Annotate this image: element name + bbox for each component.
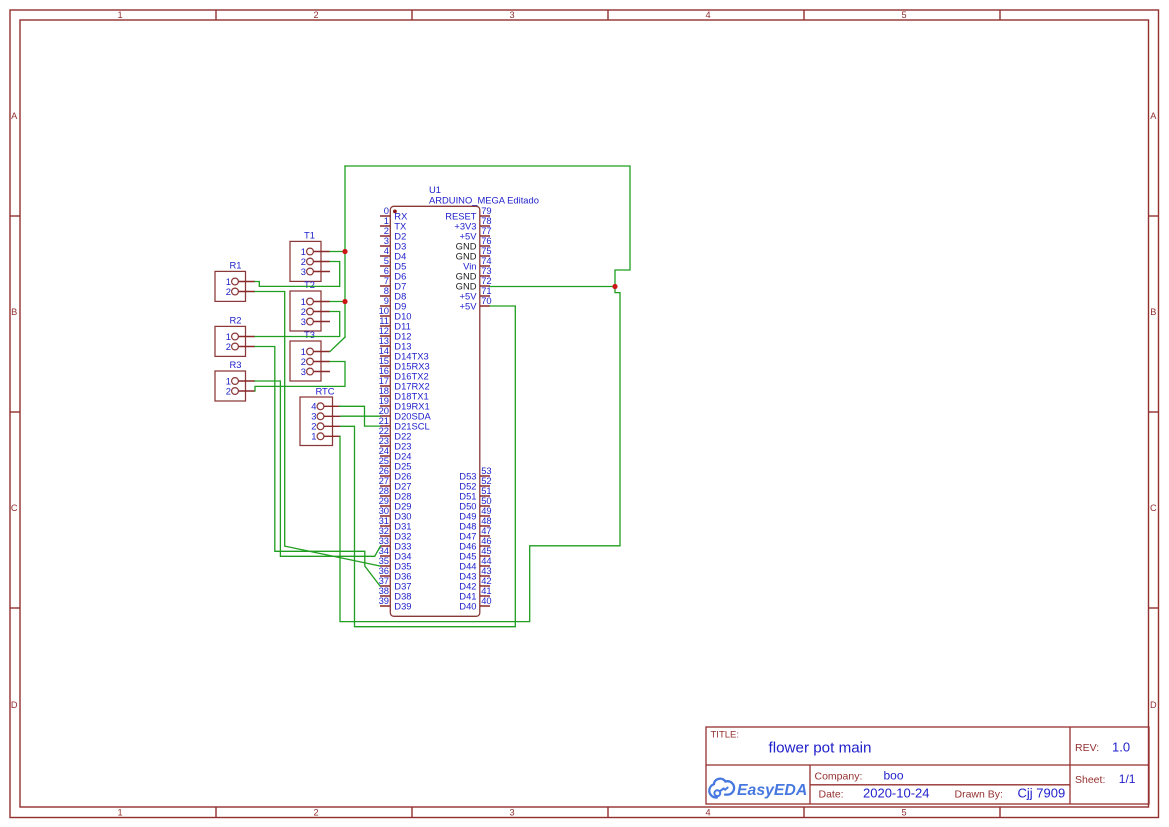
svg-text:R3: R3 — [230, 359, 242, 370]
R2 pin 1 — [226, 331, 255, 342]
Drawn By value Cjj 7909 — [1018, 786, 1066, 801]
title block TITLE label — [711, 730, 740, 741]
U1 pin 18 (D18TX1) — [379, 385, 429, 401]
U1 pin 73 (GND) — [456, 265, 492, 281]
U1 pin 23 (D23) — [379, 435, 412, 451]
svg-text:70: 70 — [481, 295, 491, 306]
U1 pin 75 (GND) — [456, 245, 492, 261]
T3 pin 3 — [301, 366, 330, 377]
RTC pin 1 — [311, 431, 340, 442]
U1 pin 34 (D34) — [379, 545, 412, 561]
svg-text:5: 5 — [901, 10, 906, 20]
U1 pin 74 (Vin) — [463, 255, 492, 271]
U1 pin 17 (D17RX2) — [379, 375, 430, 391]
T3 pin 1 — [301, 346, 330, 357]
connector T3 reference label — [304, 329, 315, 340]
wire R1 pin2 down to U1 pin D35 (diagonal) — [255, 292, 380, 567]
U1 pin-one marker dot — [393, 210, 397, 214]
T1 pin 1 — [301, 246, 330, 257]
U1 pin 79 (RESET) — [445, 205, 491, 221]
U1 pin 78 (+3V3) — [454, 215, 491, 231]
wire R3 pin1 down to U1 pin D33 (diagonal) — [255, 381, 381, 556]
U1 pin 28 (D28) — [379, 485, 412, 501]
wire RTC pin3 to U1 pin20 D20SDA — [341, 415, 381, 417]
U1 pin 51 (D51) — [459, 485, 491, 501]
T3 pin 2 — [301, 356, 330, 367]
connector T1 body — [290, 241, 321, 281]
svg-text:B: B — [11, 307, 17, 317]
svg-text:Date:: Date: — [819, 788, 844, 800]
svg-text:1: 1 — [117, 807, 122, 817]
RTC pin 4 — [311, 401, 340, 412]
U1 pin 47 (D47) — [459, 525, 491, 541]
svg-text:39: 39 — [379, 595, 389, 606]
U1 pin 35 (D35) — [379, 555, 412, 571]
U1 pin 36 (D36) — [379, 565, 412, 581]
svg-text:Drawn By:: Drawn By: — [955, 788, 1003, 800]
U1 pin 29 (D29) — [379, 495, 412, 511]
U1 pin 32 (D32) — [379, 525, 412, 541]
Date label — [819, 788, 844, 800]
svg-text:B: B — [1150, 307, 1156, 317]
U1 pin 46 (D46) — [459, 535, 491, 551]
svg-text:Cjj 7909: Cjj 7909 — [1018, 786, 1066, 801]
U1 pin 4 (D4) — [380, 245, 406, 261]
svg-text:D39: D39 — [394, 600, 411, 611]
Sheet value 1/1 — [1119, 772, 1136, 786]
U1 pin 10 (D10) — [379, 305, 412, 321]
U1 pin 11 (D11) — [379, 315, 411, 331]
U1 pin 31 (D31) — [379, 515, 412, 531]
svg-text:3: 3 — [509, 807, 514, 817]
U1 pin 25 (D25) — [379, 455, 412, 471]
U1 pin 70 (+5V) — [460, 295, 492, 311]
connector R3 body — [215, 371, 246, 401]
U1 pin 8 (D8) — [380, 285, 406, 301]
svg-text:2: 2 — [313, 10, 318, 20]
svg-text:T1: T1 — [304, 230, 315, 241]
wire GND net top loop from vertical bus to U1 area — [345, 166, 630, 287]
U1 pin 22 (D22) — [379, 425, 412, 441]
svg-text:T3: T3 — [304, 329, 315, 340]
U1 pin 19 (D19RX1) — [379, 395, 430, 411]
svg-text:3: 3 — [301, 316, 306, 327]
Drawn By label — [955, 788, 1003, 800]
R1 pin 2 — [226, 286, 255, 297]
RTC pin 2 — [311, 421, 340, 432]
connector R2 reference label — [230, 315, 242, 326]
U1 pin 1 (TX) — [380, 215, 407, 231]
U1 pin 72 (GND) — [456, 275, 492, 291]
svg-text:flower pot main: flower pot main — [769, 739, 872, 756]
U1 pin 53 (D53) — [459, 465, 491, 481]
R3 pin 2 — [226, 385, 255, 396]
svg-text:3: 3 — [301, 266, 306, 277]
wire RTC pin4 to U1 pin21 D21SCL — [340, 406, 381, 426]
svg-text:boo: boo — [884, 769, 904, 783]
wire vertical GND bus x=345 — [344, 166, 346, 337]
wire R1 pin1 to T1 pin2 — [255, 262, 340, 287]
title text flower pot main — [769, 739, 872, 756]
T2 pin 3 — [301, 316, 330, 327]
connector RTC reference label — [315, 385, 334, 396]
junction GND net near U1 pin72 — [612, 284, 617, 289]
U1 pin 24 (D24) — [379, 445, 412, 461]
connector R2 body — [215, 326, 246, 356]
REV value 1.0 — [1112, 740, 1130, 755]
T2 pin 1 — [301, 296, 330, 307]
svg-text:REV:: REV: — [1075, 742, 1099, 754]
REV label — [1075, 742, 1099, 754]
svg-text:3: 3 — [301, 366, 306, 377]
Date value 2020-10-24 — [863, 786, 930, 801]
svg-text:D40: D40 — [459, 600, 476, 611]
R3 pin 1 — [226, 375, 255, 386]
U1 pin 76 (GND) — [456, 235, 492, 251]
U1 pin 50 (D50) — [459, 495, 491, 511]
svg-text:2020-10-24: 2020-10-24 — [863, 786, 930, 801]
svg-text:2: 2 — [226, 385, 231, 396]
svg-text:1: 1 — [117, 10, 122, 20]
wire T2 pin1 to GND bus — [330, 301, 345, 303]
U1 pin 44 (D44) — [459, 555, 491, 571]
svg-text:4: 4 — [705, 10, 710, 20]
svg-text:ARDUINO_MEGA Editado: ARDUINO_MEGA Editado — [429, 195, 539, 206]
U1 pin 20 (D20SDA) — [379, 405, 432, 421]
U1 reference designator label — [429, 184, 441, 195]
U1 pin 9 (D9) — [380, 295, 406, 311]
svg-text:2: 2 — [313, 807, 318, 817]
svg-text:A: A — [1150, 111, 1157, 121]
Company value boo — [884, 769, 904, 783]
svg-text:C: C — [1150, 503, 1157, 513]
U1 pin 45 (D45) — [459, 545, 491, 561]
wire RTC pin2 to U1 pin70 +5V (around bottom) — [341, 306, 516, 627]
U1 pin 7 (D7) — [380, 275, 406, 291]
svg-text:A: A — [11, 111, 18, 121]
U1 pin 33 (D33) — [379, 535, 412, 551]
U1 pin 37 (D37) — [379, 575, 412, 591]
T1 pin 3 — [301, 266, 330, 277]
U1 pin 48 (D48) — [459, 515, 491, 531]
wire junction down around right side to RTC pin1 — [340, 287, 620, 622]
svg-text:D: D — [11, 700, 18, 710]
U1 pin 15 (D15RX3) — [379, 355, 430, 371]
svg-text:R1: R1 — [230, 260, 242, 271]
svg-text:40: 40 — [481, 595, 491, 606]
svg-text:1.0: 1.0 — [1112, 740, 1130, 755]
svg-text:R2: R2 — [230, 315, 242, 326]
wire R2 pin2 down to U1 pin D37 (diagonal) — [255, 347, 380, 587]
U1 value label ARDUINO_MEGA Editado — [429, 195, 539, 206]
U1 pin 41 (D41) — [459, 585, 491, 601]
svg-text:TITLE:: TITLE: — [711, 730, 740, 741]
T1 pin 2 — [301, 256, 330, 267]
svg-text:3: 3 — [509, 10, 514, 20]
connector T3 body — [290, 341, 321, 381]
U1 pin 30 (D30) — [379, 505, 412, 521]
U1 pin 14 (D14TX3) — [379, 345, 429, 361]
U1 pin 5 (D5) — [380, 255, 406, 271]
U1 pin 71 (+5V) — [460, 285, 492, 301]
U1 pin 2 (D2) — [380, 225, 406, 241]
U1 pin 0 (RX) — [380, 205, 408, 221]
svg-text:4: 4 — [705, 807, 710, 817]
svg-text:Sheet:: Sheet: — [1075, 774, 1105, 786]
Sheet label — [1075, 774, 1105, 786]
svg-text:2: 2 — [226, 286, 231, 297]
U1 pin 21 (D21SCL) — [379, 415, 430, 431]
U1 pin 12 (D12) — [379, 325, 412, 341]
wire diagonal GND bus to T3 pin1 — [330, 337, 345, 351]
EasyEDA logo — [709, 779, 807, 800]
U1 pin 40 (D40) — [459, 595, 491, 611]
U1 pin 26 (D26) — [379, 465, 412, 481]
connector R3 reference label — [230, 359, 242, 370]
svg-text:T2: T2 — [304, 279, 315, 290]
U1 pin 52 (D52) — [459, 475, 491, 491]
U1 pin 43 (D43) — [459, 565, 491, 581]
svg-text:D: D — [1150, 700, 1157, 710]
R2 pin 2 — [226, 341, 255, 352]
U1 pin 49 (D49) — [459, 505, 491, 521]
svg-text:EasyEDA: EasyEDA — [737, 782, 807, 799]
svg-text:U1: U1 — [429, 184, 441, 195]
svg-text:2: 2 — [226, 341, 231, 352]
connector R1 reference label — [230, 260, 242, 271]
IC U1 ARDUINO_MEGA Editado body — [390, 206, 480, 616]
wire U1 pin72 GND to junction — [490, 286, 615, 288]
R1 pin 1 — [226, 276, 255, 287]
U1 pin 13 (D13) — [379, 335, 412, 351]
connector T2 body — [290, 291, 321, 331]
svg-text:1/1: 1/1 — [1119, 772, 1136, 786]
junction T2 pin1 on GND bus — [342, 299, 347, 304]
U1 pin 42 (D42) — [459, 575, 491, 591]
U1 pin 38 (D38) — [379, 585, 412, 601]
T2 pin 2 — [301, 306, 330, 317]
U1 pin 6 (D6) — [380, 265, 406, 281]
U1 pin 77 (+5V) — [460, 225, 492, 241]
connector T2 reference label — [304, 279, 315, 290]
svg-text:+5V: +5V — [460, 300, 478, 311]
connector R1 body — [215, 271, 246, 301]
wire R3 pin2 to T3 pin2 — [255, 362, 345, 392]
svg-text:Company:: Company: — [815, 771, 863, 783]
svg-text:5: 5 — [901, 807, 906, 817]
U1 pin 27 (D27) — [379, 475, 412, 491]
connector T1 reference label — [304, 230, 315, 241]
wire R2 pin1 to T2 pin2 — [255, 312, 340, 337]
wire T1 pin1 to GND bus — [330, 251, 345, 253]
U1 pin 3 (D3) — [380, 235, 406, 251]
U1 pin 39 (D39) — [379, 595, 412, 611]
Company label — [815, 771, 863, 783]
svg-text:C: C — [11, 503, 18, 513]
connector RTC body — [300, 397, 333, 446]
RTC pin 3 — [311, 411, 340, 422]
junction T1 pin1 on GND bus — [342, 249, 347, 254]
U1 pin 16 (D16TX2) — [379, 365, 429, 381]
svg-text:1: 1 — [311, 431, 316, 442]
title block — [706, 727, 1149, 804]
